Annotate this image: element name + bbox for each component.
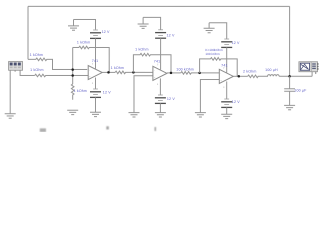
resistor R3 to ground 1 kOhm vertical: [71, 84, 74, 100]
svg-text:2 kOhm: 2 kOhm: [243, 69, 256, 73]
ground under C1: [284, 105, 295, 109]
svg-text:4: 4: [157, 83, 159, 86]
ground stage3 bottom: [221, 114, 232, 118]
battery V4 12V: [155, 95, 166, 103]
battery V5 12V: [221, 39, 232, 47]
svg-text:12 V: 12 V: [102, 30, 110, 34]
wire battery V1 to op-amp V+: [94, 38, 96, 68]
resistor R7 100 kOhm: [181, 72, 201, 75]
svg-text:12 V: 12 V: [232, 100, 240, 104]
resistor R9 2 kOhm: [248, 75, 268, 78]
svg-text:7: 7: [157, 64, 159, 67]
wire U2 non-inverting to ground: [134, 76, 153, 113]
wire to U2 inverting input: [133, 71, 153, 73]
battery V1 12V: [90, 30, 101, 38]
wire battery V2 to ground: [94, 97, 96, 112]
battery V3 12V: [155, 30, 166, 38]
svg-text:100 kOhm: 100 kOhm: [176, 68, 194, 72]
wire battery V6 to ground: [226, 107, 228, 114]
node U2 in junction dot: [132, 71, 135, 74]
inductor L1 100 uH: [267, 75, 279, 77]
node U3 in junction dot: [198, 72, 201, 75]
svg-text:100 µH: 100 µH: [265, 68, 278, 72]
FG middle terminal stub: [14, 70, 16, 72]
battery V6 12V: [221, 99, 232, 107]
wire battery V5 to U3 V+: [226, 47, 228, 72]
wire U3 non-inverting to ground: [200, 80, 219, 113]
wire U2 output: [167, 72, 181, 74]
wire FG plus terminal to R2: [20, 70, 35, 75]
svg-text:7: 7: [92, 63, 94, 66]
svg-text:4: 4: [92, 82, 94, 85]
wire op-amp U1 V- to battery V2: [94, 78, 96, 89]
wire stage1 top bracket: [74, 19, 96, 29]
svg-text:741: 741: [92, 59, 98, 63]
wire to U3 inverting input: [200, 72, 220, 74]
svg-text:4: 4: [223, 86, 225, 89]
wire to scope terminal: [311, 72, 313, 77]
node U3 out junction dot: [238, 75, 241, 78]
wire stage3 top bracket: [209, 23, 227, 39]
wire battery V3 to U2 V+: [160, 38, 162, 69]
node B junction dot: [71, 74, 74, 77]
ground under R3: [67, 110, 78, 114]
svg-text:100 µF: 100 µF: [294, 89, 307, 93]
wire top feedback loop: [28, 6, 290, 76]
resistor R6 stage2 feedback 1 kOhm: [133, 53, 171, 73]
ground stage3 top: [204, 23, 215, 33]
node U2 out junction dot: [170, 72, 173, 75]
svg-text:1 kOhm: 1 kOhm: [30, 53, 43, 57]
resistor R4 stage1 feedback 1 kOhm: [73, 46, 110, 72]
svg-text:100 kOhm: 100 kOhm: [205, 52, 220, 56]
ground stage3 noninv: [195, 113, 206, 117]
capacitor C1 100 uF: [284, 76, 295, 105]
ground stage1 bottom: [90, 112, 101, 116]
wire U3 output: [233, 75, 247, 77]
wire summing node vertical: [72, 47, 74, 83]
op-amp U2 741: [153, 66, 167, 80]
oscilloscope XSC1: [299, 62, 319, 74]
resistor R5 interstage 1 kOhm: [115, 71, 134, 74]
svg-text:1 kOhm: 1 kOhm: [77, 41, 90, 45]
svg-text:12 V: 12 V: [232, 41, 240, 45]
battery V2 12V: [90, 89, 101, 97]
ground stage2 noninv: [128, 113, 139, 117]
node out junction dot: [288, 75, 291, 78]
op-amp U3 741: [219, 69, 233, 83]
ground under FG: [5, 114, 16, 118]
function generator XFG1: [9, 61, 23, 70]
svg-text:1 kOhm: 1 kOhm: [135, 47, 148, 51]
svg-text:12 V: 12 V: [167, 33, 175, 37]
svg-text:12 V: 12 V: [103, 91, 111, 95]
ground stage2 top: [138, 17, 149, 28]
op-amp U1 741: [88, 65, 102, 79]
ground stage1 top: [68, 19, 79, 30]
wire stage2 top bracket: [143, 17, 161, 29]
wire U2 V- to battery V4: [159, 78, 161, 95]
wire U3 V- to battery V6: [226, 81, 228, 99]
svg-text:1 kOhm: 1 kOhm: [30, 68, 43, 72]
node U1 out junction dot: [107, 71, 110, 74]
svg-text:1 kOhm: 1 kOhm: [111, 66, 124, 70]
node A junction dot: [71, 68, 74, 71]
wire battery V4 to ground: [159, 103, 161, 112]
wire FG common terminal down: [9, 70, 11, 113]
wire U1 output: [102, 71, 115, 73]
resistor R1 upper input 1 kOhm: [28, 58, 87, 69]
svg-text:1 kOhm: 1 kOhm: [74, 89, 87, 93]
svg-text:12 V: 12 V: [167, 97, 175, 101]
resistor R2 lower input 1 kOhm: [35, 74, 89, 77]
wire inductor to output node: [279, 75, 312, 77]
svg-text:741: 741: [154, 59, 160, 63]
resistor R8 stage3 feedback 100 kOhm: [200, 58, 238, 77]
ground stage2 bottom: [155, 113, 166, 117]
caption remnants bottom: [40, 126, 156, 132]
